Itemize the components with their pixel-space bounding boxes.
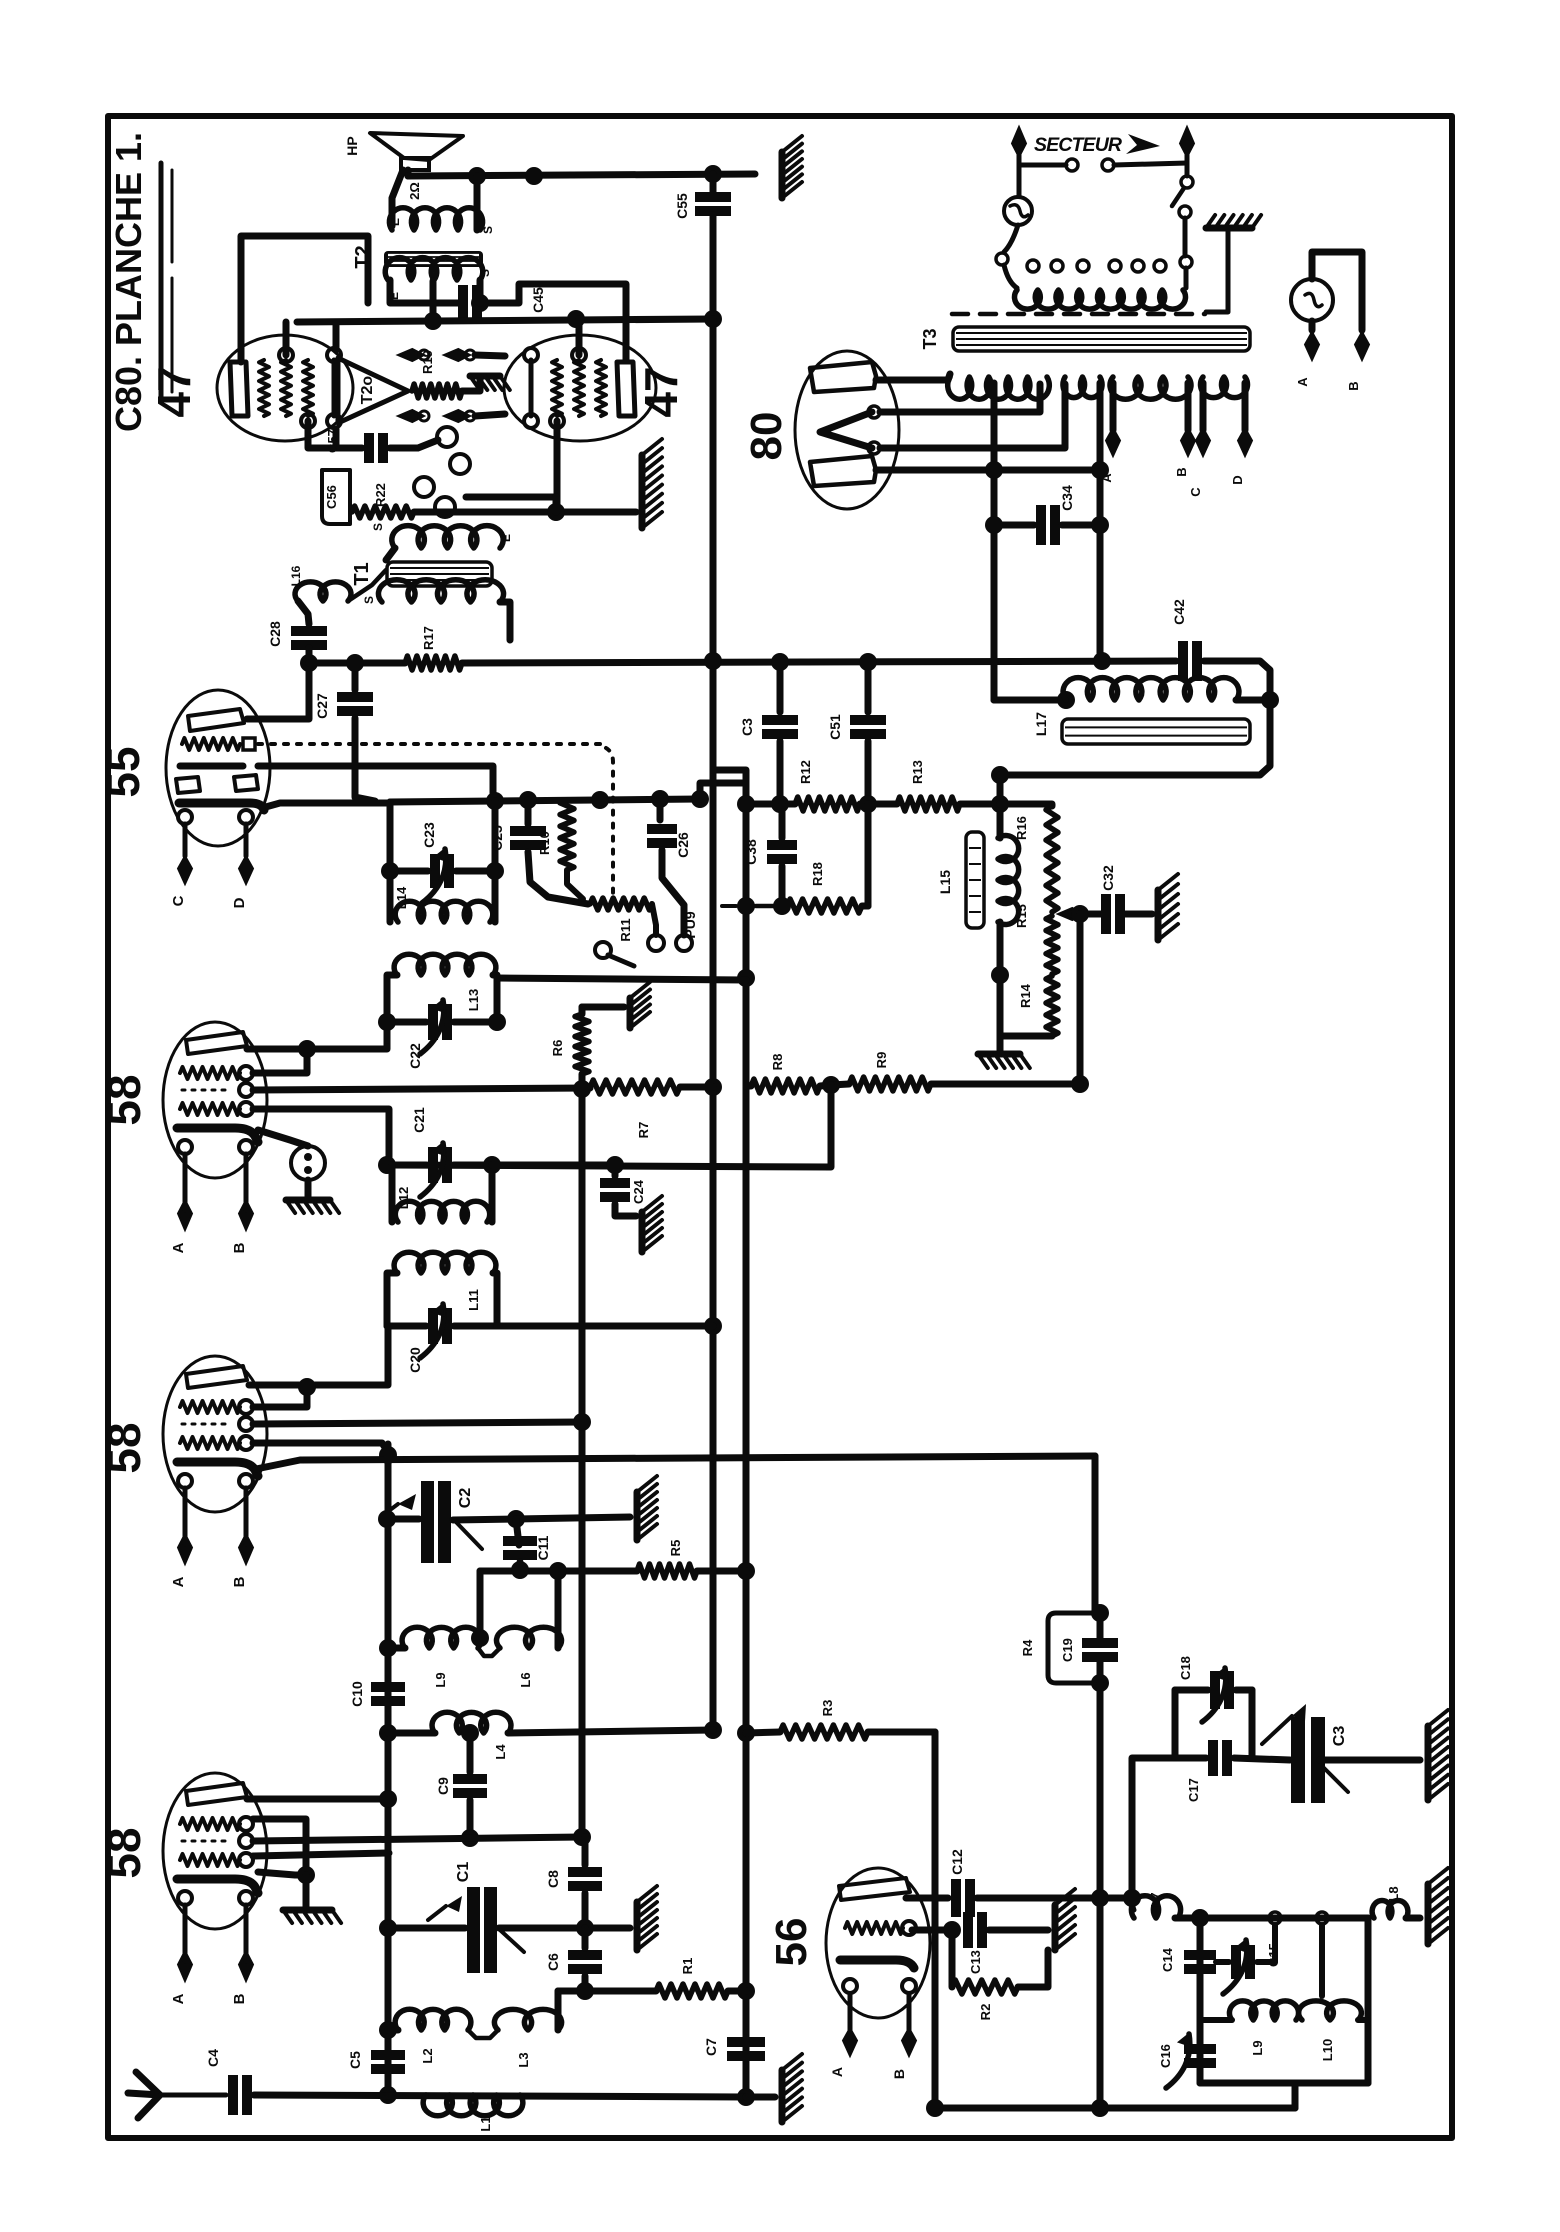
wire osc box top (1175, 1915, 1368, 1922)
node T2 primary right (471, 294, 489, 312)
wire 56 grid (912, 1927, 952, 1934)
wire 58c grid (253, 1853, 389, 1856)
svg-text:C16: C16 (1158, 2044, 1173, 2068)
pilot lamp wires (1312, 252, 1362, 330)
svg-text:R10: R10 (537, 831, 552, 855)
svg-text:R17: R17 (421, 626, 436, 650)
svg-text:R18: R18 (810, 862, 825, 886)
ground 47 cathode (639, 455, 646, 528)
svg-text:C20: C20 (407, 1347, 423, 1373)
tube 55 legs (185, 824, 246, 856)
ground C24 (639, 1212, 646, 1252)
svg-text:C8: C8 (545, 1870, 561, 1888)
capacitor C27 (337, 697, 373, 711)
wire 58a grid (253, 1109, 389, 1158)
wire R6 bias bus (579, 1074, 586, 1833)
wire 58b g3 to bias (253, 1422, 582, 1424)
T3 winding 4 (1201, 377, 1248, 398)
variable capacitor C2 (428, 1481, 445, 1563)
resistor R4 loop (1048, 1613, 1095, 1683)
T3 winding 2 (1063, 377, 1102, 398)
resistor R14 (1046, 976, 1058, 1036)
svg-text:C22: C22 (407, 1043, 423, 1069)
tube 55 (166, 690, 270, 846)
node L9 osc (471, 1629, 489, 1647)
wire L9 left (388, 1645, 405, 1652)
svg-text:L4: L4 (493, 1744, 508, 1760)
svg-text:L10: L10 (1320, 2039, 1335, 2061)
wire 58b cathode long (256, 1456, 1095, 1469)
wire 47R grid line (466, 494, 556, 501)
tube 56 legs (850, 1994, 909, 2030)
wire 47L plate to T2 (241, 236, 368, 362)
svg-text:L2: L2 (420, 2048, 435, 2063)
svg-text:D: D (231, 897, 248, 908)
resistor R22 (352, 506, 414, 518)
ground C32 (1155, 890, 1162, 940)
wire C17 feed (1132, 1758, 1175, 1898)
svg-text:C57: C57 (325, 429, 340, 453)
svg-text:L3: L3 (516, 2052, 531, 2067)
capacitor C24 (612, 1165, 619, 1176)
capacitor C8 (568, 1872, 602, 1886)
tube 55 grid (182, 738, 240, 750)
svg-text:B: B (231, 1993, 248, 2004)
resistor R8 (751, 1079, 820, 1093)
resistor R18 (787, 899, 862, 913)
coil L15 (998, 836, 1019, 925)
ground C1 (634, 1902, 641, 1950)
tube 55 diode plates (176, 777, 200, 793)
svg-text:SECTEUR: SECTEUR (1034, 134, 1122, 156)
capacitor C19 (1082, 1643, 1118, 1657)
resistor R3 (780, 1725, 868, 1739)
capacitor C12 (956, 1879, 970, 1917)
wire C20 to bus (497, 1323, 713, 1330)
svg-text:B: B (1346, 381, 1361, 390)
wire 58b osc grid (253, 1443, 388, 1452)
svg-text:T2o: T2o (359, 376, 376, 405)
capacitor C55 (710, 174, 717, 193)
svg-text:L12: L12 (396, 1187, 411, 1209)
wire speaker to HT rail (405, 170, 412, 176)
node speaker rail junctions (468, 167, 486, 185)
resistor R19 (412, 384, 462, 398)
capacitor C6 (568, 1955, 602, 1969)
winding3 terminals (1110, 383, 1117, 430)
T3 winding 1 (948, 377, 1050, 399)
coil L11 (394, 1252, 496, 1273)
wire AVC return (387, 1085, 831, 1167)
resistor R2 (949, 1930, 956, 1987)
svg-text:C4: C4 (205, 2049, 221, 2067)
wire C1 to ground (585, 1925, 630, 1932)
svg-text:80: 80 (742, 412, 791, 461)
svg-text:C11: C11 (535, 1535, 551, 1560)
wire R14 bottom (1000, 1033, 1052, 1040)
wire AVC bus (713, 770, 746, 2097)
wire C18 rails (1172, 1690, 1179, 1758)
ground top right (779, 152, 786, 198)
wire to bottom ground (746, 2094, 775, 2101)
tube 55 heater pins (178, 810, 192, 824)
wire 55 diode plate line (258, 766, 493, 801)
wire osc line (480, 1568, 637, 1575)
arrow C3 (1292, 1704, 1306, 1721)
transformer T1 core (387, 562, 492, 586)
wire R3 down (932, 1732, 939, 2108)
node screen rail (424, 312, 442, 330)
transformer T1 primary (378, 580, 503, 602)
svg-text:C23: C23 (421, 822, 437, 848)
svg-text:T3: T3 (920, 328, 940, 349)
wire box bottom (1200, 2080, 1368, 2087)
node AVC bus joins (737, 795, 755, 813)
wire HT return loop (1000, 661, 1270, 775)
capacitor C5 (371, 2055, 405, 2069)
wire L3 up to R1 line (555, 1991, 562, 2030)
capacitor C51 (865, 663, 872, 712)
wire box bottom up (1292, 2083, 1299, 2108)
mains lead right (1180, 127, 1194, 157)
svg-text:R15: R15 (1014, 904, 1029, 928)
resistor R16 (1046, 806, 1058, 912)
wire 80 plate top (876, 374, 950, 380)
svg-text:B: B (231, 1242, 248, 1253)
resistor R17 (405, 656, 462, 670)
ground R19 (470, 373, 500, 380)
coil L1 (423, 2095, 523, 2116)
ground lamp 58a (286, 1197, 330, 1204)
svg-text:C6: C6 (545, 1953, 561, 1971)
svg-text:C3: C3 (739, 718, 755, 736)
wire 58c plate (247, 1796, 387, 1803)
svg-text:C15: C15 (1266, 1943, 1281, 1967)
capacitor C18 (1215, 1671, 1229, 1709)
wire screen rail 47s (297, 319, 713, 322)
tube 58 first (163, 1022, 267, 1253)
svg-text:R11: R11 (618, 918, 633, 941)
wire to C38 leg (700, 783, 746, 799)
capacitor C56 box (322, 470, 350, 524)
wire 58a cathode lamp (258, 1130, 308, 1146)
wire box right rail (1365, 1918, 1372, 2083)
svg-text:L14: L14 (394, 886, 409, 909)
resistor R7 (590, 1080, 680, 1094)
wire osc coil feed (477, 1571, 484, 1638)
svg-text:B: B (891, 2069, 907, 2079)
wire 80 fil bottom (880, 384, 1065, 448)
capacitor C13 (968, 1912, 982, 1948)
svg-text:L9: L9 (433, 1672, 448, 1687)
ground C2 (634, 1492, 641, 1540)
resistor R6 (575, 1014, 589, 1074)
svg-text:L9: L9 (1250, 2040, 1265, 2055)
tube 80 plates (810, 362, 876, 392)
wire bus 1100 (1097, 1683, 1104, 2108)
svg-text:L13: L13 (466, 989, 481, 1011)
wire 58b screen (253, 1386, 307, 1407)
coil L14 (395, 901, 493, 922)
coil L17 (994, 697, 1066, 704)
tube 55 cathode (179, 803, 264, 810)
capacitor C16 (1184, 2049, 1216, 2063)
svg-text:C18: C18 (1178, 1656, 1193, 1680)
node detector rail (486, 792, 504, 810)
svg-text:C34: C34 (1059, 485, 1075, 511)
svg-text:R2: R2 (978, 2004, 993, 2021)
svg-text:C2: C2 (457, 1488, 474, 1509)
wire T2 primary left to C45 (390, 280, 462, 303)
ground 58c cathode (258, 1872, 306, 1875)
capacitor C21 (433, 1147, 447, 1183)
T3 primary taps (1027, 260, 1039, 272)
svg-text:C: C (170, 895, 187, 906)
wire AVC rail (746, 801, 795, 808)
wire R1 line (558, 1988, 656, 1995)
wire L13 to bus (497, 978, 746, 980)
T3 winding2 drop (1097, 383, 1104, 661)
wire RF spine (385, 1444, 392, 2095)
wire 1095 down to C19 (1092, 1456, 1099, 1613)
node cathode (547, 503, 565, 521)
wire bottom return (935, 2105, 1295, 2112)
capacitor C23 (435, 854, 449, 888)
ground bottom (779, 2070, 786, 2122)
mains link contacts (1019, 163, 1066, 168)
resistor R12 (795, 797, 860, 811)
wire 47L grid (308, 421, 336, 448)
coil L4 (432, 1712, 511, 1733)
svg-text:C5: C5 (347, 2051, 363, 2069)
svg-text:C7: C7 (703, 2038, 719, 2056)
T3 heater tap (991, 383, 998, 700)
capacitor C9 (467, 1733, 474, 1772)
node HT bus joins (704, 652, 722, 670)
svg-text:C9: C9 (435, 1777, 451, 1795)
capacitor C25 (525, 800, 532, 824)
mains lead left (1012, 127, 1026, 157)
wire L6 right up (555, 1571, 562, 1648)
coil L6 (497, 1627, 562, 1648)
svg-text:R5: R5 (668, 1540, 683, 1557)
capacitor C17 (1213, 1740, 1227, 1776)
coil L10b (1299, 2001, 1362, 2020)
capacitor C20 (433, 1308, 447, 1344)
tube 47 left (217, 335, 353, 441)
winding4 terminals (1200, 383, 1207, 430)
svg-text:C27: C27 (314, 693, 330, 719)
grid arrows lower (398, 410, 424, 422)
capacitor C26 (657, 799, 664, 820)
transformer T2 core (384, 251, 483, 267)
wire detector rail (309, 660, 405, 667)
svg-text:S: S (362, 596, 376, 604)
wire C45 to 47R plate (478, 284, 626, 360)
coil L12 (395, 1201, 489, 1222)
svg-text:T1: T1 (351, 562, 373, 585)
wire 47R cathode to ground (447, 509, 636, 516)
PU switch contacts (595, 942, 611, 958)
node C19 (1091, 1604, 1109, 1622)
svg-text:B: B (231, 1576, 248, 1587)
tube 55 plate line (180, 763, 243, 770)
capacitor C7 (727, 2042, 765, 2056)
node C51 (859, 653, 877, 671)
wire 56 plate (906, 1895, 948, 1902)
svg-text:A: A (1295, 377, 1310, 387)
capacitor C34 (1041, 505, 1055, 545)
svg-text:C12: C12 (949, 1849, 965, 1875)
wire C21 line right (492, 1162, 615, 1169)
capacitor C10 (371, 1687, 405, 1701)
svg-text:C45: C45 (530, 287, 546, 313)
wire L17 right (1236, 697, 1270, 704)
resistor R13 (897, 797, 960, 811)
node R6 g3 (573, 1080, 591, 1098)
capacitor C11 (516, 1519, 519, 1545)
svg-text:47: 47 (148, 366, 200, 417)
variable capacitor C1 (474, 1887, 491, 1973)
wire 58b plate (249, 1326, 388, 1385)
svg-text:C10: C10 (349, 1681, 365, 1707)
wire L11 rails (387, 1273, 397, 1326)
node R18 (773, 897, 791, 915)
ground L15 (978, 1051, 1020, 1058)
svg-text:R12: R12 (798, 760, 813, 784)
wire C51 to R18 (865, 804, 872, 906)
svg-text:R14: R14 (1018, 983, 1033, 1008)
wire L13 rails (387, 975, 397, 1040)
svg-text:C: C (1188, 487, 1203, 497)
transformer T1 secondary (392, 526, 503, 548)
wire C3 to ground (1320, 1757, 1420, 1764)
wire 58a g3 line (253, 1088, 590, 1090)
resistor R9 (849, 1077, 931, 1091)
lamp under 58a (291, 1146, 325, 1180)
transformer T3 primary (1004, 265, 1017, 288)
coil L8 (1372, 1901, 1408, 1918)
svg-text:R1: R1 (680, 1958, 695, 1975)
node box top taps (1269, 1912, 1281, 1924)
wire HT bus (710, 319, 717, 1730)
wire T1 primary right to bus (500, 602, 510, 640)
speaker HP (370, 133, 463, 160)
node C28 R17 (300, 654, 318, 672)
node spine joins (379, 1724, 397, 1742)
arrow SECTEUR (1126, 134, 1160, 154)
svg-text:S: S (371, 523, 385, 531)
coil L9 (402, 1627, 481, 1648)
svg-text:C42: C42 (1171, 599, 1187, 625)
wire 58a plate (247, 1040, 387, 1049)
svg-text:C14: C14 (1160, 1947, 1175, 1972)
coil L15 core (966, 832, 984, 928)
wire 58a screen (253, 1049, 307, 1073)
tube 55 top cap (188, 709, 244, 731)
svg-text:C80. PLANCHE 1.: C80. PLANCHE 1. (108, 132, 149, 432)
svg-text:C25: C25 (489, 825, 505, 851)
svg-text:L8: L8 (1386, 1886, 1401, 1901)
svg-text:S: S (481, 226, 495, 234)
wire L12 rails (389, 1165, 396, 1222)
svg-text:R16: R16 (1014, 816, 1029, 840)
svg-text:C19: C19 (1060, 1638, 1075, 1662)
svg-text:A: A (170, 1993, 187, 2004)
grid arrows upper (398, 349, 424, 361)
dashed grid line 55 (258, 742, 600, 746)
svg-text:L16: L16 (289, 565, 303, 586)
ground R6 (627, 998, 634, 1028)
svg-text:L17: L17 (1033, 712, 1049, 736)
wire L15 feed (997, 775, 1004, 804)
capacitor C15 (1236, 1945, 1250, 1979)
svg-text:A: A (170, 1576, 187, 1587)
dashed line above core (952, 312, 1205, 317)
svg-text:C51: C51 (827, 714, 843, 740)
coil L2 (395, 2009, 471, 2030)
tube 80 filament (820, 412, 872, 448)
svg-text:47: 47 (635, 366, 687, 417)
wire 58c screen (253, 1819, 306, 1873)
T3 winding 3 (1110, 377, 1191, 399)
svg-text:R3: R3 (820, 1700, 835, 1717)
svg-text:C32: C32 (1100, 865, 1116, 891)
phase inverter triangle (338, 358, 408, 423)
node C6 R1 (576, 1982, 594, 2000)
capacitor C22 (433, 1004, 447, 1040)
svg-text:56: 56 (767, 1918, 816, 1967)
wire 47L screen (283, 322, 290, 355)
svg-text:C24: C24 (631, 1179, 646, 1204)
switch blade (1181, 176, 1193, 188)
svg-text:E: E (499, 534, 513, 542)
svg-text:C55: C55 (674, 193, 690, 219)
svg-text:58: 58 (98, 1827, 150, 1878)
border frame (108, 116, 1452, 2138)
svg-text:L11: L11 (466, 1289, 481, 1311)
wire L14 right rail (492, 801, 499, 922)
node C23 (381, 862, 399, 880)
svg-text:R22: R22 (373, 483, 388, 507)
transformer T2 secondary (389, 208, 482, 230)
svg-text:L1: L1 (478, 2116, 493, 2131)
svg-text:55: 55 (97, 746, 149, 797)
ground L8 (1425, 1884, 1432, 1944)
svg-text:L6: L6 (518, 1672, 533, 1687)
transformer T2 primary (385, 258, 483, 280)
svg-text:C28: C28 (267, 621, 283, 647)
svg-text:R4: R4 (1020, 1639, 1035, 1656)
svg-text:D: D (1230, 475, 1245, 484)
svg-text:C13: C13 (968, 1950, 983, 1974)
tube 58 third (163, 1773, 267, 2004)
wire HT top rail (408, 174, 755, 176)
svg-text:A: A (829, 2067, 845, 2077)
svg-text:C1: C1 (455, 1862, 472, 1883)
transformer T3 core (953, 327, 1250, 351)
resistor R15 (1046, 916, 1058, 974)
wire C12 right (977, 1895, 1130, 1902)
node C27 (346, 654, 364, 672)
coil L7 (1130, 1898, 1134, 1910)
tube 47 right (504, 335, 656, 441)
ground switch (1206, 225, 1252, 232)
svg-text:L7: L7 (1148, 1892, 1163, 1907)
wire 47R screen (576, 319, 583, 355)
wire L16 to C28 (298, 601, 309, 624)
wire T2 centre tap (430, 281, 437, 321)
